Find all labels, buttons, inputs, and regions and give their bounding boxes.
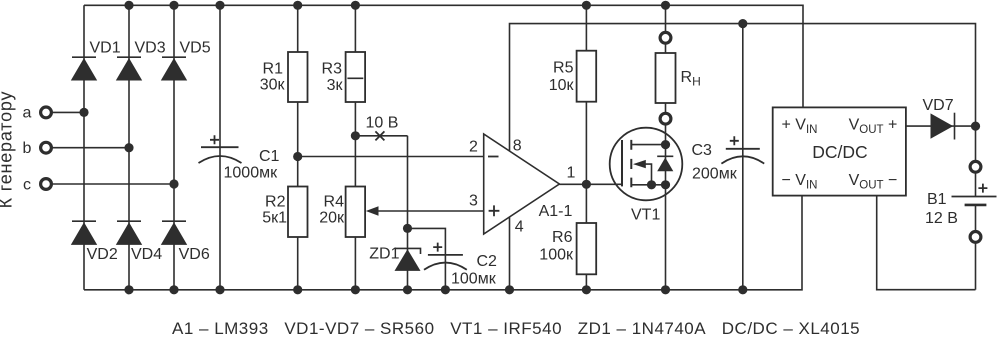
- svg-text:VD6: VD6: [179, 246, 210, 263]
- svg-text:VD2: VD2: [87, 246, 118, 263]
- wire op-amp pin2 input: [298, 156, 484, 158]
- svg-text:30к: 30к: [260, 77, 286, 94]
- wire R3 R4 column: [354, 5, 356, 290]
- diode VD5: [161, 57, 187, 80]
- svg-text:10к: 10к: [549, 77, 575, 94]
- battery B1: [952, 161, 997, 242]
- svg-text:10 В: 10 В: [366, 114, 399, 131]
- junction pin2 node: [293, 152, 302, 161]
- junction VD7 battery node: [971, 122, 980, 131]
- wire battery column lower: [975, 205, 977, 290]
- svg-text:1: 1: [567, 165, 576, 182]
- wire bridge leg 3: [173, 5, 175, 290]
- terminal c: [41, 179, 52, 190]
- resistor RH: [656, 53, 676, 103]
- diode VD4: [116, 221, 142, 245]
- wire R1 R2 column: [297, 5, 299, 290]
- resistor R1: [288, 52, 308, 102]
- junction ground pin4: [505, 285, 514, 294]
- svg-text:К генератору: К генератору: [0, 91, 16, 209]
- wire op-amp pin4 to ground: [509, 217, 511, 290]
- svg-text:ZD1: ZD1: [369, 245, 399, 262]
- wire op-amp pin3 input: [377, 210, 484, 212]
- svg-text:VD7: VD7: [923, 97, 954, 114]
- junction ground leg3: [169, 285, 178, 294]
- wire VOUT- battery return: [877, 196, 976, 290]
- transistor VT1: [610, 128, 683, 201]
- svg-text:100мк: 100мк: [451, 271, 497, 288]
- diode VD1: [71, 57, 97, 80]
- junction ground R4: [351, 285, 360, 294]
- svg-text:A1-1: A1-1: [539, 203, 573, 220]
- junction phase c: [169, 179, 178, 188]
- svg-text:200мк: 200мк: [692, 166, 738, 183]
- svg-text:C3: C3: [692, 142, 713, 159]
- svg-text:b: b: [23, 140, 32, 157]
- wire battery column upper: [975, 126, 977, 196]
- junction ground R6: [582, 285, 591, 294]
- svg-text:R2: R2: [265, 194, 286, 211]
- svg-text:RH: RH: [681, 69, 701, 89]
- wire phase c stub: [53, 183, 175, 185]
- wire C1 column: [219, 5, 221, 290]
- svg-text:R5: R5: [553, 60, 574, 77]
- wire bridge leg 2: [128, 5, 130, 290]
- resistor R2: [288, 187, 308, 238]
- svg-text:A1 – LM393 VD1-VD7 – SR560: A1 – LM393 VD1-VD7 – SR560 VT1 – IRF540 …: [172, 319, 860, 338]
- capacitor C3: [721, 136, 764, 163]
- junction top rail leg3: [169, 1, 178, 10]
- junction ground C2: [441, 285, 450, 294]
- wire phase b stub: [53, 147, 130, 149]
- junction ZD1 C2 node: [403, 224, 412, 233]
- svg-text:R3: R3: [322, 61, 343, 78]
- terminal a: [41, 107, 52, 118]
- test point 10V cross: [375, 131, 384, 140]
- svg-text:C1: C1: [259, 148, 280, 165]
- svg-text:R1: R1: [263, 61, 284, 78]
- junction ground R2: [293, 285, 302, 294]
- wire second rail (op-amp pin8 / battery bus): [510, 24, 976, 152]
- diode VD3: [116, 57, 142, 80]
- junction top rail R5: [582, 1, 591, 10]
- wire ground rail with -VIN riser: [84, 196, 802, 290]
- junction phase b: [124, 143, 133, 152]
- potentiometer R4: [346, 187, 379, 238]
- capacitor C2: [424, 243, 467, 270]
- junction top rail RH: [661, 1, 670, 10]
- svg-text:12 В: 12 В: [925, 210, 958, 227]
- wire ZD1 column: [407, 136, 409, 290]
- wire 10V branch: [355, 135, 407, 137]
- capacitor C1: [199, 135, 242, 163]
- svg-text:DC/DC: DC/DC: [812, 142, 867, 162]
- svg-text:R6: R6: [552, 229, 573, 246]
- wire op-amp output to gate: [559, 183, 622, 185]
- svg-text:R4: R4: [324, 194, 345, 211]
- DC/DC converter block: [773, 107, 906, 195]
- terminal b: [41, 142, 52, 153]
- svg-text:c: c: [23, 176, 31, 193]
- svg-text:C2: C2: [477, 253, 498, 270]
- svg-text:VT1: VT1: [631, 206, 660, 223]
- resistor R3: [346, 52, 366, 102]
- svg-text:B1: B1: [927, 191, 947, 208]
- wire VOUT+ to VD7: [906, 125, 976, 127]
- diode VD2: [71, 221, 97, 245]
- resistor R5: [577, 51, 597, 102]
- load terminal top: [660, 32, 671, 43]
- svg-text:1000мк: 1000мк: [224, 164, 279, 181]
- svg-text:a: a: [23, 105, 32, 122]
- svg-text:8: 8: [513, 138, 522, 155]
- svg-text:3: 3: [469, 192, 478, 209]
- svg-text:VD4: VD4: [131, 246, 162, 263]
- wire top rail with VIN drop: [84, 5, 803, 107]
- load terminal bottom: [660, 113, 671, 124]
- wire RH drain column: [665, 5, 667, 290]
- junction top rail leg2: [124, 1, 133, 10]
- wire C2 branch: [408, 228, 446, 289]
- junction top rail R3: [351, 1, 360, 10]
- wire phase a stub: [53, 111, 85, 113]
- junction 10V node: [351, 131, 360, 140]
- junction second rail C3: [738, 19, 747, 28]
- junction ground C1: [215, 285, 224, 294]
- svg-text:VD1: VD1: [90, 40, 121, 57]
- junction ground ZD1: [403, 285, 412, 294]
- junction top rail C1: [215, 1, 224, 10]
- svg-text:5к1: 5к1: [262, 210, 287, 227]
- zener diode ZD1: [395, 248, 421, 271]
- diode VD6: [161, 221, 187, 245]
- junction top rail R1: [293, 1, 302, 10]
- wire R5 R6 column: [585, 5, 587, 290]
- svg-text:4: 4: [515, 218, 524, 235]
- op-amp A1-1: [484, 134, 560, 234]
- svg-text:20к: 20к: [319, 210, 345, 227]
- junction ground C3: [738, 285, 747, 294]
- svg-text:3к: 3к: [327, 77, 344, 94]
- wire C3 column: [742, 24, 744, 290]
- svg-text:100к: 100к: [539, 247, 574, 264]
- junction ground VT1 source: [661, 285, 670, 294]
- svg-text:VD3: VD3: [135, 40, 166, 57]
- wire bridge leg 1: [83, 5, 85, 290]
- svg-text:VD5: VD5: [180, 40, 211, 57]
- svg-text:2: 2: [469, 138, 478, 155]
- junction ground leg2: [124, 285, 133, 294]
- diode VD7: [931, 113, 955, 140]
- resistor R6: [577, 223, 597, 274]
- junction phase a: [79, 108, 88, 117]
- junction output node: [582, 180, 591, 189]
